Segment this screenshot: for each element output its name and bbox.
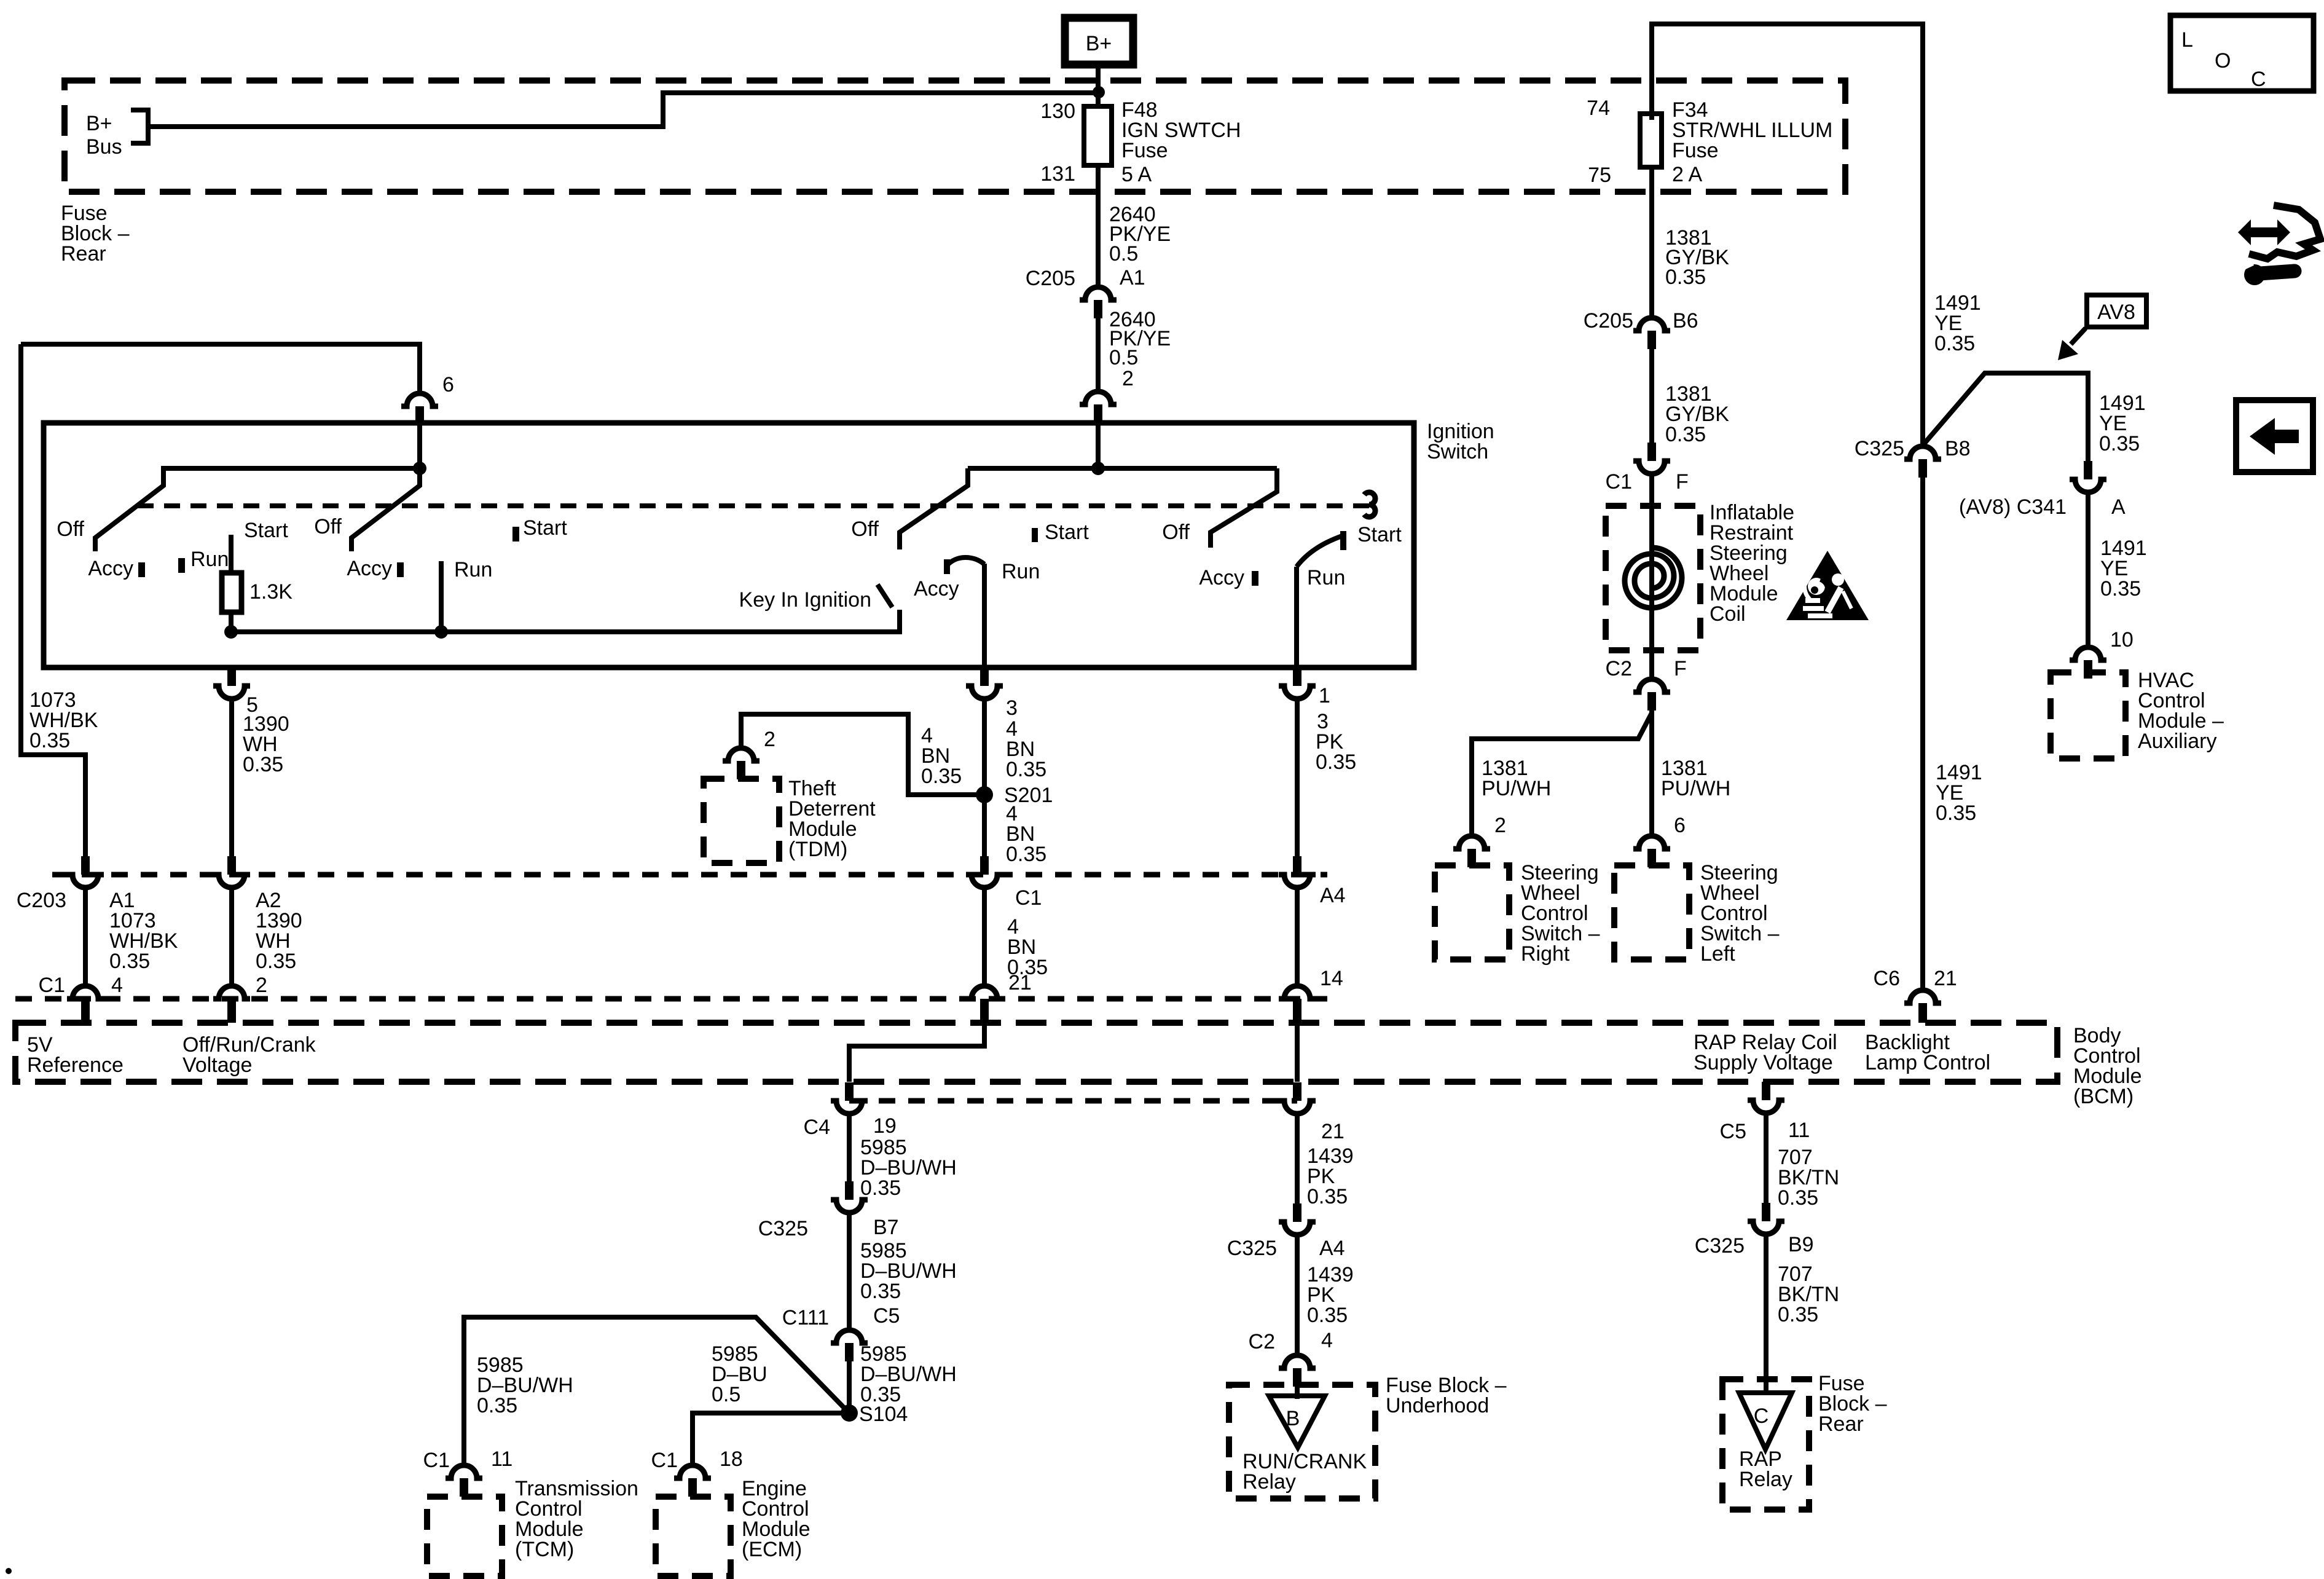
svg-text:0.5: 0.5 (1109, 346, 1138, 369)
svg-text:Voltage: Voltage (183, 1053, 252, 1077)
svg-text:0.5: 0.5 (712, 1383, 740, 1406)
svg-text:6: 6 (1674, 814, 1686, 837)
svg-text:Accy: Accy (1199, 566, 1244, 589)
svg-text:Off: Off (314, 515, 342, 538)
svg-text:11: 11 (491, 1447, 512, 1471)
svg-text:0.35: 0.35 (1934, 332, 1975, 355)
svg-text:2: 2 (256, 974, 267, 997)
svg-text:C2: C2 (1606, 657, 1632, 680)
svg-text:L: L (2181, 28, 2193, 52)
svg-text:(TCM): (TCM) (515, 1538, 574, 1561)
svg-text:130: 130 (1040, 100, 1075, 123)
svg-text:Run: Run (1307, 566, 1345, 589)
svg-text:2: 2 (1122, 367, 1134, 390)
svg-text:C5: C5 (873, 1304, 900, 1328)
svg-text:0.35: 0.35 (860, 1176, 901, 1200)
svg-text:C1: C1 (651, 1449, 678, 1472)
svg-text:Coil: Coil (1710, 602, 1746, 626)
svg-text:4: 4 (1321, 1329, 1333, 1352)
svg-text:11: 11 (1788, 1119, 1810, 1142)
svg-text:C325: C325 (1227, 1237, 1277, 1260)
svg-text:0.35: 0.35 (1665, 266, 1706, 289)
svg-text:Start: Start (1357, 523, 1402, 546)
svg-text:Rear: Rear (61, 242, 106, 266)
svg-text:Start: Start (1045, 521, 1089, 544)
svg-text:0.35: 0.35 (243, 753, 283, 776)
svg-text:B6: B6 (1673, 309, 1698, 333)
svg-text:(TDM): (TDM) (788, 838, 847, 861)
svg-text:4: 4 (111, 974, 123, 997)
svg-text:A4: A4 (1320, 884, 1346, 907)
svg-text:(AV8) C341: (AV8) C341 (1959, 495, 2067, 519)
svg-text:21: 21 (1321, 1120, 1345, 1143)
svg-text:C2: C2 (1249, 1330, 1275, 1353)
svg-text:B+: B+ (1086, 32, 1112, 55)
svg-text:5 A: 5 A (1121, 163, 1152, 186)
svg-text:C4: C4 (804, 1116, 830, 1139)
svg-text:6: 6 (442, 373, 454, 396)
svg-text:Run: Run (454, 558, 492, 581)
svg-text:O: O (2215, 49, 2231, 73)
svg-text:B: B (1286, 1407, 1300, 1430)
svg-text:2 A: 2 A (1672, 163, 1702, 186)
svg-text:0.35: 0.35 (1665, 423, 1706, 446)
svg-text:Relay: Relay (1739, 1468, 1792, 1491)
svg-text:C205: C205 (1026, 267, 1075, 290)
svg-text:0.35: 0.35 (1307, 1185, 1348, 1208)
svg-text:1: 1 (1319, 684, 1330, 707)
svg-text:C1: C1 (1015, 886, 1042, 910)
svg-text:0.35: 0.35 (477, 1394, 517, 1417)
svg-text:0.35: 0.35 (1316, 750, 1356, 774)
svg-text:C203: C203 (17, 889, 66, 912)
svg-text:Start: Start (244, 519, 288, 542)
svg-text:0.35: 0.35 (256, 950, 296, 973)
svg-text:21: 21 (1008, 971, 1032, 994)
svg-text:Run: Run (190, 548, 229, 571)
svg-text:A4: A4 (1319, 1237, 1345, 1260)
svg-text:C325: C325 (1855, 437, 1904, 460)
svg-text:PU/WH: PU/WH (1661, 777, 1730, 800)
svg-text:Left: Left (1700, 942, 1735, 966)
svg-text:B7: B7 (873, 1216, 899, 1239)
svg-text:C325: C325 (758, 1217, 808, 1240)
svg-text:C5: C5 (1720, 1120, 1746, 1143)
svg-text:74: 74 (1587, 96, 1610, 120)
svg-text:F: F (1676, 470, 1689, 494)
svg-text:C: C (2251, 68, 2266, 91)
svg-text:Relay: Relay (1242, 1470, 1296, 1494)
svg-text:AV8: AV8 (2097, 301, 2135, 324)
svg-text:Lamp Control: Lamp Control (1865, 1051, 1990, 1074)
svg-text:C1: C1 (39, 974, 65, 997)
svg-text:0.35: 0.35 (2099, 432, 2140, 455)
svg-text:0.35: 0.35 (109, 950, 150, 973)
svg-text:A1: A1 (1120, 266, 1145, 289)
svg-text:0.35: 0.35 (29, 729, 70, 752)
svg-text:Underhood: Underhood (1386, 1394, 1489, 1417)
svg-text:0.35: 0.35 (921, 765, 962, 788)
svg-text:75: 75 (1588, 163, 1611, 187)
svg-text:C111: C111 (782, 1306, 829, 1329)
svg-text:0.5: 0.5 (1109, 242, 1138, 266)
svg-text:Bus: Bus (86, 135, 122, 159)
svg-text:PU/WH: PU/WH (1482, 777, 1551, 800)
svg-text:0.35: 0.35 (1778, 1186, 1818, 1210)
svg-text:0.35: 0.35 (1006, 758, 1046, 781)
svg-text:S104: S104 (859, 1403, 908, 1426)
svg-text:Auxiliary: Auxiliary (2138, 730, 2216, 753)
svg-text:Accy: Accy (347, 557, 392, 580)
svg-text:(ECM): (ECM) (742, 1538, 802, 1561)
svg-text:19: 19 (873, 1114, 897, 1138)
svg-text:21: 21 (1934, 967, 1957, 990)
svg-text:A: A (2111, 495, 2126, 519)
svg-text:0.35: 0.35 (1006, 843, 1046, 866)
svg-text:Right: Right (1521, 942, 1570, 966)
svg-text:Rear: Rear (1818, 1412, 1864, 1436)
svg-text:B9: B9 (1788, 1233, 1814, 1256)
svg-text:B+: B+ (86, 112, 112, 135)
svg-text:Accy: Accy (88, 557, 133, 580)
svg-text:14: 14 (1320, 967, 1343, 990)
svg-text:Off: Off (57, 518, 84, 541)
svg-text:Off: Off (851, 518, 879, 541)
svg-text:0.35: 0.35 (1778, 1303, 1818, 1326)
svg-text:Key In Ignition: Key In Ignition (739, 588, 871, 612)
svg-text:F: F (1674, 657, 1687, 680)
svg-text:Accy: Accy (914, 577, 959, 600)
svg-text:C1: C1 (1606, 470, 1632, 494)
svg-text:Run: Run (1002, 560, 1040, 583)
svg-text:B8: B8 (1945, 437, 1971, 460)
svg-text:0.35: 0.35 (1936, 801, 1976, 825)
svg-text:18: 18 (720, 1447, 743, 1471)
svg-text:0.35: 0.35 (1307, 1304, 1348, 1327)
svg-text:2: 2 (764, 728, 775, 751)
svg-text:Reference: Reference (27, 1053, 124, 1077)
svg-text:2: 2 (1494, 814, 1506, 837)
svg-text:C: C (1754, 1404, 1769, 1428)
svg-text:C325: C325 (1695, 1234, 1745, 1258)
svg-text:Fuse: Fuse (1672, 139, 1719, 162)
svg-text:0.35: 0.35 (2100, 577, 2141, 600)
svg-text:C205: C205 (1584, 309, 1633, 333)
svg-text:Supply Voltage: Supply Voltage (1694, 1051, 1833, 1074)
svg-text:3: 3 (1006, 696, 1018, 720)
svg-text:1.3K: 1.3K (249, 580, 292, 604)
svg-text:Switch: Switch (1427, 440, 1488, 463)
svg-text:Fuse: Fuse (1121, 139, 1168, 162)
svg-text:10: 10 (2110, 628, 2134, 652)
svg-text:C6: C6 (1874, 967, 1900, 990)
svg-text:(BCM): (BCM) (2073, 1085, 2134, 1108)
svg-text:Off: Off (1162, 521, 1190, 544)
svg-text:Start: Start (523, 516, 567, 540)
svg-text:0.35: 0.35 (860, 1280, 901, 1303)
svg-text:131: 131 (1040, 162, 1075, 186)
svg-text:C1: C1 (423, 1449, 450, 1472)
